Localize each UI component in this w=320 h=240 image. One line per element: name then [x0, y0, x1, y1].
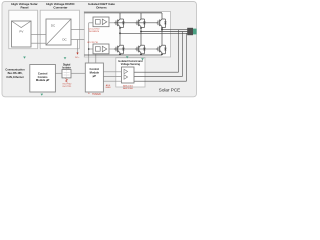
svg-text:+: +: [88, 92, 90, 96]
svg-text:Voltage Sensing: Voltage Sensing: [121, 63, 141, 66]
group box solar panel: [9, 10, 38, 49]
svg-text:Bus RS-485,: Bus RS-485,: [8, 71, 23, 75]
green link marker 3: [126, 56, 129, 58]
wire sense drop A: [186, 33, 188, 81]
green link marker 2: [64, 57, 67, 59]
svg-text:Isolator: Isolator: [62, 66, 71, 69]
IGBT Q5: [156, 22, 158, 24]
control module microprocessor: [85, 63, 103, 92]
control comms module microprocessor: [30, 65, 56, 93]
svg-text:Solar PCE: Solar PCE: [159, 88, 180, 93]
wire DC+ top bus: [84, 12, 162, 14]
wire PWM riser: [88, 23, 90, 63]
node phase B: [140, 31, 142, 33]
wire DC- link: [71, 39, 84, 41]
wire phase A out: [120, 32, 193, 34]
wire driver to control module: [95, 54, 97, 63]
wire sense sig1: [103, 71, 121, 73]
wire sense sig2: [103, 75, 121, 77]
red arrow DC bus sense: [76, 53, 78, 55]
wire sense return bottom: [134, 80, 187, 82]
wire DC- bottom bus: [84, 54, 162, 56]
wire sense sig3: [103, 80, 121, 82]
wire gate link bottom: [116, 48, 137, 50]
AC output connector: [187, 28, 193, 35]
wire bottom gate bus: [109, 48, 116, 50]
svg-text:Module: Module: [90, 70, 100, 74]
svg-text:µP: µP: [93, 74, 97, 78]
svg-text:ISO5852S: ISO5852S: [89, 31, 100, 33]
IGBT Q4: [135, 48, 137, 50]
outer enclosure box Solar PCE: [2, 2, 197, 97]
node PWM junction: [88, 48, 90, 50]
svg-text:Comms: Comms: [38, 75, 48, 79]
wire sense drop C: [178, 30, 180, 72]
node phase A: [119, 32, 121, 34]
wire PV- to DC/DC: [31, 42, 46, 44]
wire gate link bottom2: [137, 48, 158, 50]
wire phase A rail: [119, 28, 121, 44]
svg-text:TMS320: TMS320: [92, 94, 101, 96]
svg-text:Converter: Converter: [53, 5, 68, 9]
wire gate link top: [116, 22, 137, 24]
green link marker 1: [23, 57, 26, 59]
wire DC+ link: [71, 29, 84, 31]
node phase C: [161, 29, 163, 31]
IGBT Q3: [135, 22, 137, 24]
svg-text:PV: PV: [19, 29, 23, 33]
wire to top gate driver: [89, 22, 93, 24]
wire phase B out: [141, 31, 193, 33]
group box DC/DC converter: [40, 10, 79, 49]
wire to bottom gate driver: [89, 48, 93, 50]
gate driver U2: [93, 44, 109, 54]
IGBT Q1: [114, 22, 116, 24]
solar panel PV: [12, 21, 32, 47]
svg-text:8688: 8688: [106, 87, 112, 89]
isolation amplifier U3: [122, 67, 135, 83]
svg-text:AMC3306: AMC3306: [123, 87, 134, 90]
wire sense return mid: [134, 75, 183, 77]
wire sense drop B: [182, 32, 184, 77]
wire phase B rail: [140, 28, 142, 44]
wire comms to isolator: [55, 72, 62, 74]
wire phase C rail: [161, 28, 163, 44]
IGBT Q2: [114, 48, 116, 50]
DC/DC converter U-DCDC: [46, 19, 71, 45]
wire gate link top2: [137, 22, 158, 24]
group box isolated current and voltage sensing: [116, 58, 145, 87]
wire DC voltage sense branch: [77, 40, 79, 53]
wire phase C out: [162, 29, 193, 31]
group box IGBT gate drivers: [84, 12, 170, 58]
digital isolator U4: [62, 70, 71, 78]
svg-text:ISO7721: ISO7721: [63, 86, 72, 88]
svg-text:Control: Control: [38, 71, 48, 75]
svg-text:Panel: Panel: [20, 5, 28, 9]
isolation mark (red): [66, 79, 68, 83]
wire top gate bus: [109, 22, 116, 24]
svg-text:Module µP: Module µP: [36, 78, 50, 82]
svg-text:CAN, Ethernet: CAN, Ethernet: [6, 75, 23, 79]
wire isolator to control: [71, 72, 85, 74]
svg-text:Communication: Communication: [5, 68, 25, 72]
svg-text:Drivers: Drivers: [96, 5, 107, 9]
IGBT Q6: [156, 48, 158, 50]
green link marker 5: [41, 94, 44, 96]
wire PV+ to DC/DC: [31, 34, 46, 36]
svg-text:UCC21710: UCC21710: [87, 42, 99, 44]
wire sense return top: [134, 71, 179, 73]
green link marker 4: [141, 58, 144, 60]
svg-text:Control: Control: [90, 67, 100, 71]
svg-text:DC+: DC+: [75, 57, 80, 59]
gate driver U1: [93, 17, 109, 27]
